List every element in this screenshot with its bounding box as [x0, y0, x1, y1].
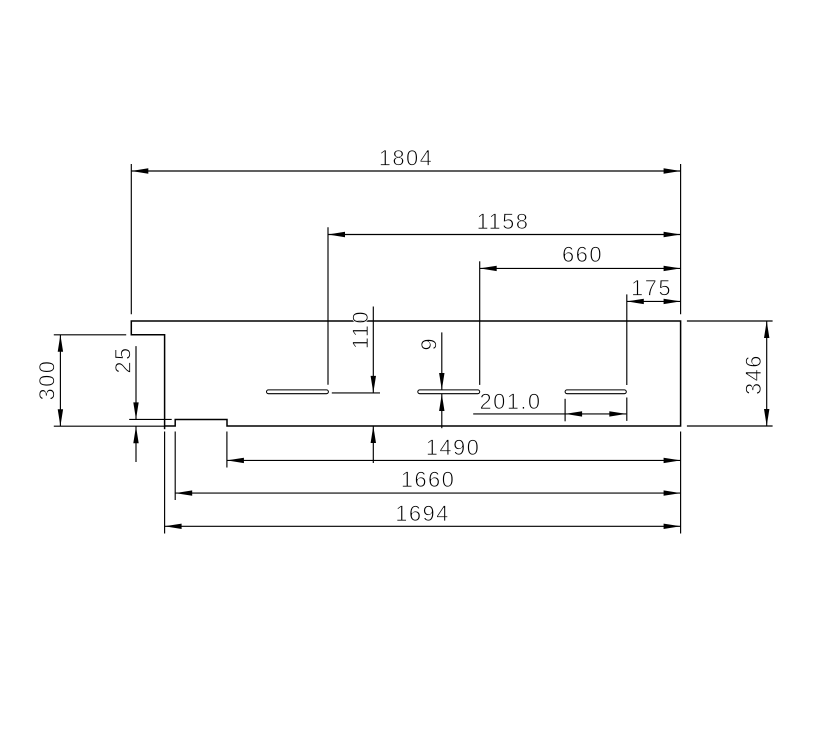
dim line upper 25 — [135, 346, 137, 419]
extension line right shared by bottom dims — [680, 432, 682, 534]
dimension 25 — [129, 346, 172, 462]
dimension 1660 — [175, 432, 680, 501]
dimension 300 — [54, 335, 165, 426]
svg-text:1694: 1694 — [395, 501, 450, 526]
extension line top of 300 — [54, 334, 126, 336]
dim line 1660 — [175, 492, 680, 494]
dim line upper 110 — [372, 307, 374, 393]
dimension 201.0 — [473, 399, 626, 422]
svg-text:110: 110 — [348, 310, 373, 349]
extension line left of 1694 — [164, 432, 166, 534]
svg-text:1158: 1158 — [477, 209, 530, 234]
extension line left of 175 lower — [626, 398, 628, 421]
extension line top of 346 — [687, 320, 773, 322]
svg-text:1660: 1660 — [401, 467, 456, 492]
arrow right 1804 — [664, 168, 681, 173]
arrow right 1694 — [664, 524, 681, 529]
dim line 300 — [59, 335, 61, 426]
extension line bottom of 300 — [54, 425, 165, 427]
svg-text:1490: 1490 — [426, 435, 481, 460]
arrow up 110 — [371, 426, 376, 443]
slot 2 — [418, 390, 480, 394]
dim line lower 25 — [135, 426, 137, 462]
arrow up 9 — [439, 394, 444, 411]
dimension 1694 — [165, 432, 681, 534]
dimension 1158 — [328, 227, 681, 384]
svg-text:300: 300 — [34, 360, 59, 401]
arrow down 9 — [439, 373, 444, 390]
extension line left of 660 — [479, 261, 481, 385]
arrow top 346 — [764, 321, 769, 338]
extension line left of 201.0 — [564, 399, 566, 422]
arrow left 1694 — [165, 524, 182, 529]
svg-text:1804: 1804 — [379, 146, 434, 171]
svg-text:9: 9 — [416, 337, 441, 351]
extension line left of 175 upper — [626, 294, 628, 385]
dim line 1804 — [131, 170, 680, 172]
extension line left of 1490 — [226, 432, 228, 468]
svg-text:660: 660 — [562, 242, 603, 267]
left edge overshoot — [164, 426, 166, 429]
svg-text:346: 346 — [741, 354, 766, 395]
dim line lower 110 — [372, 426, 374, 463]
arrow left 1660 — [175, 490, 192, 495]
dim line 1694 — [165, 525, 681, 527]
arrow top 300 — [58, 335, 63, 352]
dim line 346 — [766, 321, 768, 426]
dimension 660 — [480, 261, 681, 385]
extension line left of 1660 — [174, 432, 176, 501]
arrow bottom 300 — [58, 409, 63, 426]
arrow bottom 346 — [764, 409, 769, 426]
arrow right 1158 — [664, 232, 681, 237]
dim line 1490 — [227, 459, 681, 461]
dimension 346 — [687, 321, 773, 426]
dim line 175 — [627, 300, 681, 302]
arrow down 110 — [371, 376, 376, 393]
slot 3 — [565, 390, 626, 394]
svg-text:175: 175 — [631, 276, 672, 301]
arrow right 660 — [664, 266, 681, 271]
extension line right shared by top dims — [680, 164, 682, 314]
reference line for 25 — [129, 418, 172, 420]
dim line upper 9 — [441, 332, 443, 390]
arrow left 201.0 — [565, 411, 582, 416]
dim line 1158 — [328, 234, 681, 236]
dimension 175 — [627, 294, 681, 421]
arrow right 1490 — [664, 458, 681, 463]
dim line 201.0 — [473, 413, 626, 415]
arrow left 1490 — [227, 458, 244, 463]
arrow up 25 — [133, 426, 138, 443]
arrow left 660 — [480, 266, 497, 271]
part outline — [131, 321, 680, 426]
arrow left 1804 — [131, 168, 148, 173]
svg-text:201.0: 201.0 — [479, 389, 541, 414]
arrow left 1158 — [328, 232, 345, 237]
dimension 1804 — [131, 164, 680, 314]
dim line 660 — [480, 267, 681, 269]
slot 1 — [267, 390, 329, 394]
arrow right 175 — [664, 299, 681, 304]
extension line left of 1804 — [130, 164, 132, 314]
arrow down 25 — [133, 402, 138, 419]
dimension 9 — [439, 332, 444, 428]
extension line left of 1158 — [327, 227, 329, 384]
arrow right 1660 — [664, 490, 681, 495]
extension line bottom of 346 — [687, 425, 773, 427]
dimension 1490 — [227, 432, 681, 534]
svg-text:25: 25 — [111, 346, 136, 373]
dim line lower 9 — [441, 394, 443, 428]
reference line for 110 — [332, 392, 380, 394]
dimension 110 — [332, 307, 380, 464]
arrow left 175 — [627, 299, 644, 304]
arrow right 201.0 — [609, 411, 626, 416]
